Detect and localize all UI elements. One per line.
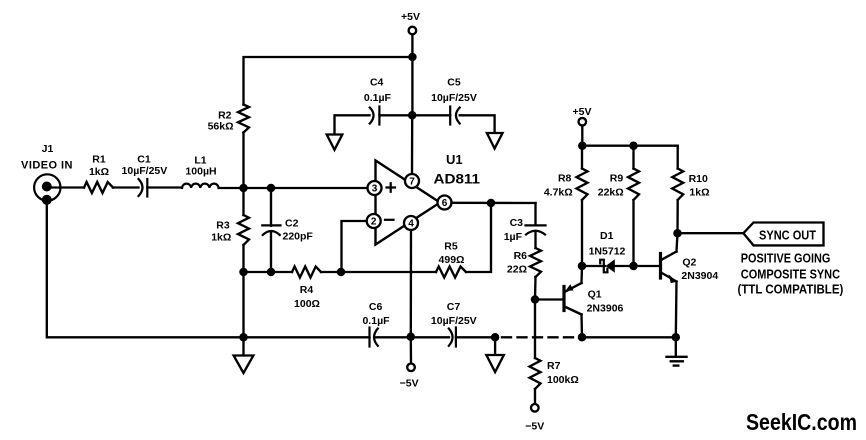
svg-text:SYNC OUT: SYNC OUT (759, 228, 816, 243)
svg-text:R4: R4 (300, 284, 314, 296)
svg-text:U1: U1 (446, 152, 463, 167)
node at +5V/R2 tee (408, 53, 417, 62)
node ground rail / R3 branch (239, 333, 248, 342)
wire R1 to C1 (113, 186, 139, 188)
-5V terminal below op-amp (400, 337, 419, 390)
node output/R5 (487, 199, 496, 208)
-5V terminal below R7 (525, 404, 544, 433)
resistor R2 (208, 105, 249, 133)
wire Q2 emitter down to rail (675, 282, 678, 338)
pin 2 (367, 214, 381, 228)
wire R4 to R5 (321, 271, 436, 273)
svg-text:C4: C4 (370, 77, 384, 89)
svg-text:1kΩ: 1kΩ (89, 166, 109, 178)
wire node up to op-amp pin 2 (342, 221, 367, 272)
capacitor C2 (262, 188, 313, 272)
svg-text:4: 4 (408, 219, 414, 230)
svg-text:100Ω: 100Ω (294, 298, 320, 310)
svg-text:10µF/25V: 10µF/25V (431, 315, 477, 327)
wire J1 to R1 (52, 186, 84, 188)
wire to SYNC OUT (678, 232, 744, 234)
wire Q2 collector up to R10/sync node (677, 233, 678, 251)
svg-text:D1: D1 (600, 230, 614, 242)
svg-text:0.1µF: 0.1µF (364, 92, 392, 104)
svg-text:Q1: Q1 (588, 289, 602, 301)
svg-text:1µF: 1µF (504, 231, 523, 243)
svg-text:0.1µF: 0.1µF (362, 315, 390, 327)
wire from R2 top to +5V rail (244, 57, 413, 105)
pin 6 (438, 196, 452, 210)
svg-text:100µH: 100µH (185, 166, 216, 178)
wire rail to Q2 emitter node (582, 336, 676, 338)
svg-text:C5: C5 (447, 77, 461, 89)
wire node down through rail to R7 (534, 300, 536, 359)
pin 4 (404, 216, 418, 230)
svg-text:1kΩ: 1kΩ (211, 232, 231, 244)
node R9 top (629, 141, 638, 150)
svg-text:C7: C7 (447, 301, 461, 313)
wire Q1 emitter up to D1 node (580, 266, 583, 283)
svg-text:AD811: AD811 (434, 172, 481, 187)
wire pin 6 to output node (452, 202, 536, 205)
resistor R10 (672, 146, 709, 234)
resistor R9 (598, 146, 639, 266)
resistor R4 (292, 267, 321, 311)
svg-text:3: 3 (372, 184, 378, 195)
svg-text:VIDEO IN: VIDEO IN (21, 160, 73, 172)
svg-text:499Ω: 499Ω (439, 254, 465, 266)
svg-text:22kΩ: 22kΩ (598, 187, 624, 199)
svg-text:R7: R7 (547, 360, 561, 372)
node C7 / ground (491, 333, 500, 342)
svg-text:R9: R9 (610, 173, 624, 185)
svg-text:POSITIVE GOING: POSITIVE GOING (741, 251, 831, 266)
svg-text:1kΩ: 1kΩ (689, 187, 709, 199)
svg-text:R6: R6 (514, 250, 528, 262)
svg-text:R10: R10 (689, 173, 708, 185)
resistor R8 (544, 146, 588, 266)
svg-text:R8: R8 (558, 173, 572, 185)
ground below R3 branch (234, 337, 254, 373)
wire +5V down to op-amp pin 7 (411, 34, 414, 174)
pin 3 (368, 181, 382, 195)
svg-text:(TTL COMPATIBLE): (TTL COMPATIBLE) (738, 282, 844, 297)
connector J1 VIDEO IN (21, 143, 73, 205)
node input/R2/R3 (239, 184, 248, 193)
capacitor C6 (362, 301, 410, 347)
wire pin 4 down to node (410, 230, 413, 337)
svg-text:J1: J1 (42, 143, 54, 155)
resistor R3 (211, 188, 249, 272)
pin 7 (405, 174, 419, 188)
capacitor C7 (411, 301, 495, 347)
transistor Q2 2N3904 (661, 252, 719, 284)
svg-text:−5V: −5V (525, 421, 544, 433)
wire node to Q1 base (535, 298, 563, 300)
diode D1 1N5712 (582, 230, 634, 273)
svg-text:L1: L1 (194, 154, 206, 166)
svg-text:10µF/25V: 10µF/25V (122, 165, 168, 177)
svg-text:+5V: +5V (573, 106, 592, 118)
wire R2 bottom to input node (242, 133, 244, 189)
svg-text:−5V: −5V (400, 378, 419, 390)
dashed wire to Q1 collector node (502, 336, 578, 338)
svg-text:220pF: 220pF (283, 231, 314, 243)
svg-text:R1: R1 (92, 154, 106, 166)
+5V supply terminal (right) (573, 106, 592, 125)
transistor Q1 2N3906 (564, 283, 624, 315)
svg-text:2N3904: 2N3904 (681, 270, 718, 282)
wire Q1 collector down to rail (580, 315, 583, 338)
node Q1 emitter / R8 / D1 (578, 262, 587, 271)
capacitor C3 (504, 217, 546, 248)
capacitor C4 with ground (327, 77, 413, 150)
wire J1 down the left edge to ground rail (47, 200, 370, 337)
node R10 / Q2 collector / sync out (673, 229, 682, 238)
svg-text:COMPOSITE SYNC: COMPOSITE SYNC (741, 267, 841, 282)
resistor R5 (436, 241, 466, 278)
svg-text:C1: C1 (137, 154, 151, 166)
svg-text:7: 7 (409, 177, 415, 188)
svg-text:2: 2 (371, 217, 377, 228)
svg-text:2N3906: 2N3906 (587, 303, 624, 315)
svg-text:22Ω: 22Ω (507, 264, 527, 276)
resistor R6 (507, 248, 541, 300)
svg-text:R3: R3 (216, 220, 230, 232)
svg-text:6: 6 (442, 198, 448, 209)
node R6/R7/Q1 base (531, 295, 540, 304)
inductor L1 (182, 154, 219, 188)
SYNC OUT flag (743, 223, 823, 246)
wire L1 to op-amp pin 3 (219, 187, 368, 189)
svg-text:C6: C6 (369, 301, 383, 313)
+5V supply terminal (top) (401, 11, 420, 34)
svg-text:100kΩ: 100kΩ (547, 374, 579, 386)
annotation text (738, 251, 844, 297)
svg-text:C3: C3 (510, 217, 524, 229)
node R8 top (578, 141, 587, 150)
wire C1 to L1 (147, 186, 182, 188)
capacitor C1 (122, 154, 168, 197)
svg-text:C2: C2 (285, 218, 299, 230)
node R3/ground branch (239, 268, 248, 277)
node Q1 collector / rail (578, 333, 587, 342)
svg-text:+5V: +5V (401, 11, 420, 23)
svg-text:1N5712: 1N5712 (589, 246, 626, 258)
node Q2 emitter / chassis ground (672, 333, 681, 342)
wire feedback row to R4 (244, 271, 293, 273)
svg-text:R5: R5 (444, 241, 458, 253)
wire R3 node down to ground rail (242, 272, 244, 337)
node C2/feedback (267, 268, 276, 277)
node input/C2 (267, 184, 276, 193)
svg-text:56kΩ: 56kΩ (208, 121, 234, 133)
node C4/C5/+5V rail (408, 111, 417, 120)
wire output node down into C3 (534, 203, 536, 225)
resistor R7 (530, 358, 579, 404)
node -5V / op-amp pin 4 rail (407, 333, 416, 342)
resistor R1 (84, 154, 113, 194)
chassis ground below Q2 emitter (667, 337, 687, 365)
wire D1 node to Q2 base (634, 265, 660, 267)
node R9 / D1 / Q2 base (629, 262, 638, 271)
ground below C7 node (486, 337, 503, 372)
svg-text:10µF/25V: 10µF/25V (431, 92, 477, 104)
svg-text:Q2: Q2 (682, 257, 696, 269)
svg-text:SeekIC.com: SeekIC.com (746, 409, 857, 435)
op-amp U1 AD811 (376, 152, 481, 245)
wire R5 up to output node (466, 203, 491, 272)
svg-text:4.7kΩ: 4.7kΩ (544, 187, 573, 199)
capacitor C5 with ground (412, 77, 502, 149)
wire +5V right rail (582, 126, 677, 146)
node R4/R5/inverting input (337, 268, 346, 277)
